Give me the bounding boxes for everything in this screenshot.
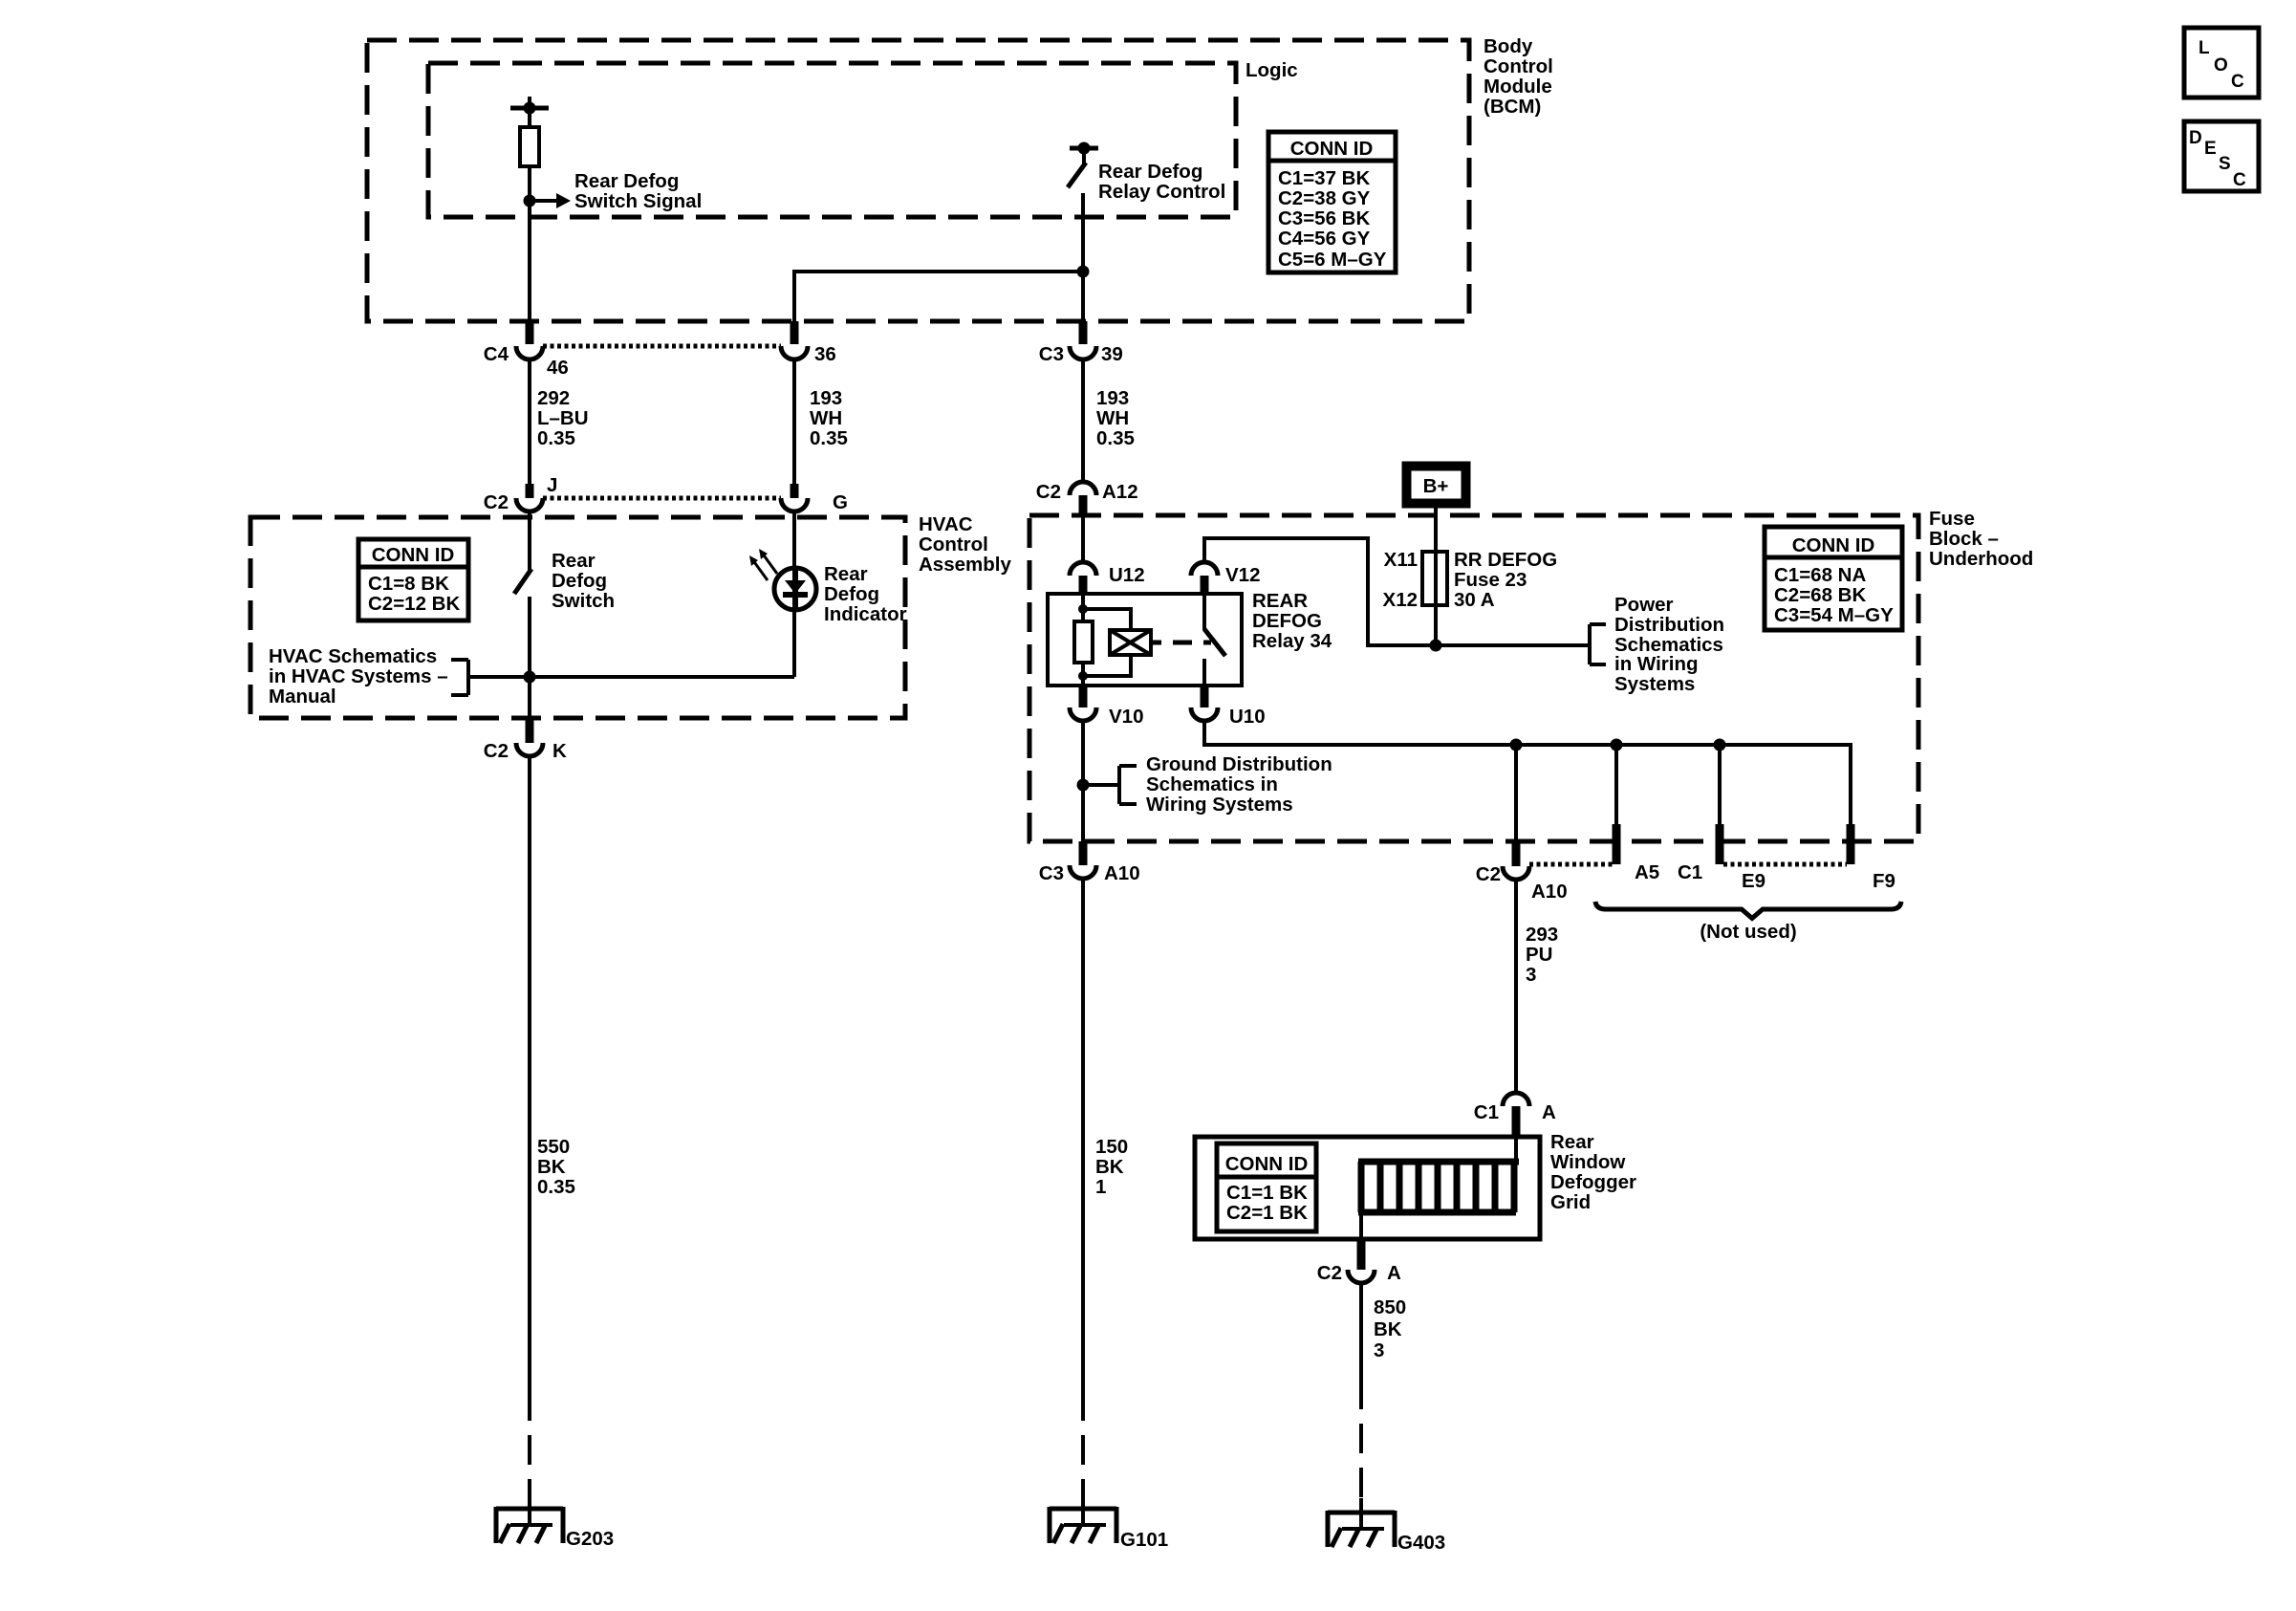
svg-text:Rear Defog: Rear Defog: [574, 170, 679, 192]
connector C1 pin A: [1474, 1093, 1556, 1137]
svg-text:Rear Defog: Rear Defog: [1098, 161, 1202, 183]
svg-text:292: 292: [537, 387, 570, 409]
svg-text:E: E: [2204, 139, 2217, 159]
svg-text:Control: Control: [919, 533, 988, 555]
Rear Window Defogger Grid box: [1195, 1137, 1540, 1239]
connector C2 pin J: [484, 474, 558, 513]
svg-text:WH: WH: [1096, 407, 1129, 429]
svg-text:BK: BK: [1095, 1156, 1124, 1178]
node: ground distribution junction: [1077, 779, 1120, 792]
wire 292 L-BU 0.35: [528, 359, 531, 484]
wire 850 BK 3 to G403: [1359, 1283, 1363, 1501]
internal voltage rail node (top of pull-up): [510, 97, 549, 127]
Body Control Module (BCM) box: [367, 40, 1469, 321]
svg-text:C1=37 BK: C1=37 BK: [1278, 167, 1370, 189]
dotted connector-row line A10..A5: [1529, 862, 1613, 867]
wire from G pin into LED: [792, 512, 796, 570]
relay REAR DEFOG Relay 34 box: [1048, 594, 1242, 686]
svg-text:Defog: Defog: [824, 583, 879, 605]
svg-text:3: 3: [1526, 964, 1536, 986]
HVAC CONN ID table: [358, 539, 468, 620]
wire: switch signal down to C4 connector: [528, 201, 531, 321]
wire drop to pin E9: [1718, 745, 1722, 824]
svg-text:Assembly: Assembly: [919, 554, 1011, 576]
connector C2 pin A (grid ground side): [1317, 1239, 1401, 1284]
label: X11 / X12 fuse terminals: [1383, 549, 1418, 611]
wire V10 down through fuse block: [1081, 721, 1085, 841]
connector C2 pin A12: [1036, 481, 1138, 516]
label: Body Control Module (BCM): [1484, 35, 1553, 118]
svg-text:V10: V10: [1109, 706, 1143, 728]
label: REAR DEFOG Relay 34: [1252, 590, 1332, 652]
svg-text:Logic: Logic: [1245, 59, 1298, 81]
BCM CONN ID table: [1268, 132, 1396, 272]
connector C3 pin A10: [1039, 841, 1140, 884]
svg-text:850: 850: [1374, 1296, 1406, 1318]
dotted connector-row line E9..F9: [1723, 862, 1847, 867]
LOC icon: [2184, 28, 2259, 98]
svg-text:G403: G403: [1397, 1532, 1445, 1554]
svg-text:C4=56 GY: C4=56 GY: [1278, 228, 1371, 250]
grid CONN ID table: [1217, 1143, 1316, 1231]
label: wire 293 PU 3: [1526, 924, 1558, 986]
svg-text:C3: C3: [1039, 343, 1064, 365]
svg-text:X11: X11: [1384, 549, 1418, 571]
label: Rear Defog Switch Signal: [574, 170, 702, 212]
wire 193 WH 0.35 (switch leg): [792, 359, 796, 484]
svg-text:B+: B+: [1423, 475, 1449, 497]
svg-text:HVAC Schematics: HVAC Schematics: [269, 645, 437, 667]
svg-text:C1=1 BK: C1=1 BK: [1226, 1182, 1308, 1204]
svg-text:Distribution: Distribution: [1614, 614, 1724, 636]
label: RR DEFOG Fuse 23 30 A: [1454, 549, 1557, 611]
svg-text:Defogger: Defogger: [1550, 1171, 1636, 1193]
svg-text:550: 550: [537, 1136, 570, 1158]
resistor (switch-signal pull-up): [520, 127, 539, 201]
relay contacts (open switch): [1204, 594, 1225, 686]
defogger grid element (ladder): [1358, 1137, 1519, 1239]
svg-text:3: 3: [1374, 1339, 1384, 1361]
wire U10 to grid feed and spare pins: [1204, 721, 1851, 824]
svg-text:A: A: [1387, 1262, 1401, 1284]
svg-text:193: 193: [810, 387, 842, 409]
svg-text:Underhood: Underhood: [1929, 548, 2033, 570]
svg-text:C2: C2: [1317, 1262, 1342, 1284]
label: Ground Distribution Schematics in Wiring Systems: [1146, 753, 1332, 816]
svg-text:PU: PU: [1526, 944, 1552, 966]
label: wire 850 BK 3: [1374, 1296, 1406, 1361]
svg-text:DEFOG: DEFOG: [1252, 610, 1322, 632]
connector pin U10: [1191, 686, 1266, 728]
fuse block CONN ID table: [1765, 527, 1902, 630]
svg-text:30 A: 30 A: [1454, 589, 1495, 611]
svg-text:C1: C1: [1474, 1101, 1499, 1123]
svg-text:CONN ID: CONN ID: [372, 544, 455, 566]
svg-text:C2=68 BK: C2=68 BK: [1774, 584, 1866, 606]
svg-text:BK: BK: [537, 1156, 566, 1178]
connector pin 36: [781, 321, 836, 365]
svg-text:in Wiring: in Wiring: [1614, 653, 1699, 675]
wire 293 PU 3: [1514, 880, 1518, 1093]
svg-text:F9: F9: [1873, 870, 1895, 892]
svg-text:Manual: Manual: [269, 686, 336, 708]
connector C2 pin A10: [1476, 841, 1568, 903]
svg-text:C3: C3: [1039, 862, 1064, 884]
svg-text:Rear: Rear: [1550, 1131, 1594, 1153]
svg-text:A: A: [1542, 1101, 1556, 1123]
label: Rear Defog Indicator: [824, 563, 907, 625]
connector pin U12: [1070, 562, 1145, 594]
relay coil resistor: [1074, 594, 1093, 686]
svg-text:Fuse 23: Fuse 23: [1454, 569, 1527, 591]
svg-text:Relay 34: Relay 34: [1252, 630, 1332, 652]
ground G101: [1050, 1494, 1168, 1551]
label: wire 292 L-BU 0.35: [537, 387, 589, 449]
svg-text:A12: A12: [1102, 481, 1138, 503]
svg-text:Power: Power: [1614, 594, 1674, 616]
svg-text:in HVAC Systems –: in HVAC Systems –: [269, 665, 448, 687]
reference bracket to HVAC Schematics: [451, 660, 468, 695]
svg-text:C3=56 BK: C3=56 BK: [1278, 207, 1370, 229]
svg-text:L–BU: L–BU: [537, 407, 589, 429]
reference bracket to Power Distribution Schematics: [1590, 624, 1606, 664]
svg-text:S: S: [2219, 154, 2231, 174]
svg-text:C3=54 M–GY: C3=54 M–GY: [1774, 604, 1894, 626]
svg-text:Control: Control: [1484, 55, 1553, 77]
wire below switch to junction: [528, 597, 531, 718]
svg-text:BK: BK: [1374, 1318, 1402, 1340]
svg-text:O: O: [2214, 55, 2228, 76]
wire drop to C2 A10: [1514, 745, 1518, 841]
svg-text:(Not used): (Not used): [1700, 921, 1796, 943]
svg-text:C2=1 BK: C2=1 BK: [1226, 1202, 1308, 1224]
svg-text:C2: C2: [1476, 863, 1501, 885]
svg-text:Module: Module: [1484, 76, 1552, 98]
stub pin A5: [1613, 824, 1621, 864]
svg-text:Rear: Rear: [552, 550, 596, 572]
connector pin V12: [1191, 562, 1260, 594]
svg-text:0.35: 0.35: [537, 427, 575, 449]
svg-text:293: 293: [1526, 924, 1558, 946]
svg-text:C2: C2: [484, 491, 509, 513]
svg-text:36: 36: [814, 343, 836, 365]
dotted connector-row line J..G: [543, 496, 781, 501]
svg-text:C2=12 BK: C2=12 BK: [368, 593, 460, 615]
svg-text:150: 150: [1095, 1136, 1128, 1158]
LED: Rear Defog Indicator: [749, 549, 816, 610]
connector C4 pin 46: [484, 321, 569, 379]
HVAC Control Assembly box: [250, 517, 905, 718]
svg-text:L: L: [2199, 38, 2210, 58]
svg-text:E9: E9: [1742, 870, 1765, 892]
svg-text:Schematics in: Schematics in: [1146, 773, 1278, 795]
B+ power symbol: [1402, 462, 1470, 508]
svg-text:Body: Body: [1484, 35, 1533, 57]
Fuse Block - Underhood box: [1029, 515, 1918, 841]
label: wire 193 WH 0.35: [810, 387, 848, 449]
wire into Rear Defog Switch: [528, 512, 531, 570]
label: HVAC Schematics in HVAC Systems - Manual: [269, 645, 448, 708]
svg-text:Switch Signal: Switch Signal: [574, 190, 702, 212]
wire 150 BK 1 to G101: [1081, 879, 1085, 1497]
label: Rear Defog Switch: [552, 550, 615, 612]
brace (Not used): [1595, 902, 1901, 943]
svg-text:(BCM): (BCM): [1484, 96, 1541, 118]
svg-text:Rear: Rear: [824, 563, 868, 585]
svg-text:HVAC: HVAC: [919, 513, 973, 535]
svg-text:J: J: [547, 474, 557, 496]
wire B+ to fuse: [1434, 508, 1438, 552]
switch: Rear Defog Switch (open blade): [514, 569, 531, 594]
svg-text:C5=6 M–GY: C5=6 M–GY: [1278, 249, 1387, 271]
svg-text:Grid: Grid: [1550, 1191, 1591, 1213]
svg-text:U10: U10: [1229, 706, 1266, 728]
svg-text:1: 1: [1095, 1176, 1106, 1198]
svg-text:D: D: [2189, 128, 2202, 148]
svg-text:0.35: 0.35: [1096, 427, 1135, 449]
svg-text:C1=68 NA: C1=68 NA: [1774, 564, 1866, 586]
svg-text:Defog: Defog: [552, 570, 607, 592]
svg-text:V12: V12: [1225, 564, 1260, 586]
label: Rear Defog Relay Control: [1098, 161, 1225, 203]
svg-text:0.35: 0.35: [537, 1176, 575, 1198]
wire A12 down to U12: [1081, 516, 1085, 562]
wire: link from relay-control wire to pin 36 wire: [794, 266, 1090, 322]
svg-text:C2: C2: [1036, 481, 1061, 503]
DESC icon: [2184, 121, 2259, 191]
label: A5 C1: [1635, 861, 1702, 883]
node: Rear Defog Switch Signal junction with arrow: [524, 193, 572, 208]
label: Power Distribution Schematics in Wiring Systems: [1614, 594, 1724, 695]
label: Rear Window Defogger Grid: [1550, 1131, 1636, 1213]
stub pin E9: [1716, 824, 1724, 864]
svg-text:Window: Window: [1550, 1151, 1625, 1173]
svg-text:Wiring Systems: Wiring Systems: [1146, 794, 1293, 816]
fuse RR DEFOG Fuse 23 30 A: [1422, 552, 1447, 605]
ground G203: [496, 1494, 614, 1550]
svg-text:REAR: REAR: [1252, 590, 1308, 612]
connector C3 pin 39: [1039, 321, 1123, 365]
svg-text:CONN ID: CONN ID: [1792, 534, 1875, 556]
svg-text:X12: X12: [1383, 589, 1418, 611]
label: HVAC Control Assembly: [919, 513, 1011, 576]
svg-text:Systems: Systems: [1614, 673, 1695, 695]
label: Fuse Block - Underhood: [1929, 508, 2033, 570]
connector pin V10: [1070, 686, 1143, 728]
svg-text:C2=38 GY: C2=38 GY: [1278, 187, 1371, 209]
svg-text:C4: C4: [484, 343, 509, 365]
wire 193 WH 0.35 (relay leg): [1081, 359, 1085, 482]
label: wire 193 WH 0.35: [1096, 387, 1135, 449]
svg-text:RR DEFOG: RR DEFOG: [1454, 549, 1557, 571]
svg-text:CONN ID: CONN ID: [1290, 138, 1374, 160]
wire below LED: [792, 610, 796, 677]
svg-text:U12: U12: [1109, 564, 1145, 586]
connector C2 pin K: [484, 718, 567, 762]
wire 550 BK 0.35 to G203: [528, 756, 531, 1497]
svg-text:A10: A10: [1531, 881, 1568, 903]
relay control output node (T-bar): [1070, 142, 1098, 165]
svg-text:C2: C2: [484, 740, 509, 762]
svg-text:39: 39: [1101, 343, 1123, 365]
svg-text:193: 193: [1096, 387, 1129, 409]
relay solenoid (box with X): [1083, 609, 1151, 676]
wire drop to pin A5: [1614, 745, 1618, 824]
dotted connector-row line C4..36: [543, 344, 781, 349]
wire: relay control down to C3 connector: [1081, 193, 1085, 321]
ground G403: [1328, 1498, 1445, 1554]
svg-text:C: C: [2231, 72, 2244, 92]
svg-text:46: 46: [547, 357, 569, 379]
label: wire 150 BK 1: [1095, 1136, 1128, 1198]
stub pin F9: [1847, 824, 1855, 864]
svg-text:Ground Distribution: Ground Distribution: [1146, 753, 1332, 775]
svg-text:C1=8 BK: C1=8 BK: [368, 573, 449, 595]
svg-text:Indicator: Indicator: [824, 603, 907, 625]
wire joining switch leg and LED leg: [468, 671, 794, 684]
svg-text:WH: WH: [810, 407, 842, 429]
svg-text:Switch: Switch: [552, 590, 615, 612]
svg-text:A5: A5: [1635, 861, 1659, 883]
svg-text:A10: A10: [1104, 862, 1140, 884]
svg-text:C: C: [2233, 170, 2246, 190]
svg-text:Block –: Block –: [1929, 528, 1999, 550]
svg-text:G101: G101: [1120, 1529, 1168, 1551]
svg-text:Relay Control: Relay Control: [1098, 181, 1225, 203]
wire fuse output to junction and relay V12: [1204, 538, 1590, 652]
switch: Rear Defog Relay Control (open blade): [1068, 163, 1086, 187]
svg-text:G: G: [833, 491, 848, 513]
connector pin G: [781, 484, 848, 513]
Logic box: [428, 63, 1236, 217]
svg-text:Fuse: Fuse: [1929, 508, 1975, 530]
svg-text:CONN ID: CONN ID: [1225, 1153, 1309, 1175]
svg-text:K: K: [552, 740, 567, 762]
label: wire 550 BK 0.35: [537, 1136, 575, 1198]
svg-text:G203: G203: [566, 1528, 614, 1550]
svg-text:0.35: 0.35: [810, 427, 848, 449]
reference bracket to Ground Distribution Schematics: [1119, 766, 1137, 804]
svg-text:C1: C1: [1678, 861, 1702, 883]
mechanical link (dashed) coil to contacts: [1151, 641, 1211, 645]
